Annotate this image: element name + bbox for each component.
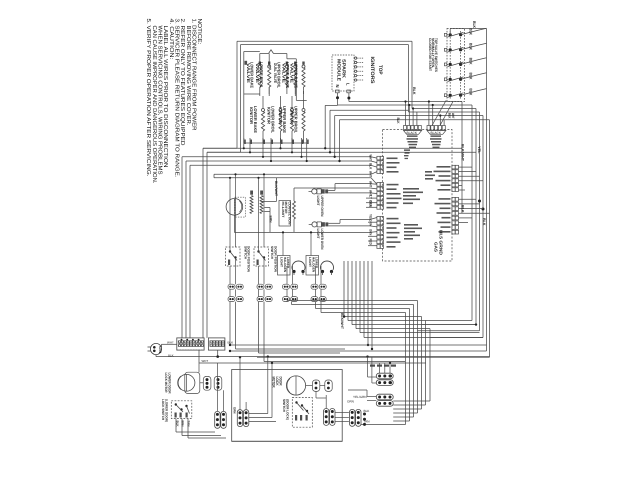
wire grid1 up [216,363,218,411]
svg-text:BLK: BLK [468,43,472,50]
halogen light box [306,256,319,276]
valve switch S2 [444,48,446,51]
wire bus line y178 [214,177,371,179]
svg-text:DUAL VALVE: DUAL VALVE [273,63,278,83]
control interior pin labels right of R2 [439,198,451,200]
wire harness corner k2 [330,109,409,111]
svg-text:WHT: WHT [368,155,372,161]
svg-text:ORN: ORN [368,201,372,208]
svg-text:VALVE: VALVE [246,63,251,84]
wire bus L1 [203,147,462,149]
connector grid A horizontal [376,373,393,379]
svg-text:N: N [335,85,340,88]
wire valve rail with arrow [243,52,245,144]
wire switch ladder top to BLK bus [449,29,451,35]
wire left harness corner 4 [186,160,371,162]
wire stubs control R2 to bus [459,198,477,200]
control connector P1 pin text [407,135,418,137]
halogen light lamp [321,261,334,270]
connector ovals center motor [312,380,319,391]
control interior center text blocks [403,188,419,190]
wires grid2 [239,357,241,409]
wire plug BLK bottom [155,355,157,357]
power cord plug P [150,343,161,354]
svg-text:SWITCH: SWITCH [243,246,247,260]
wire border row 2 to right [409,111,480,113]
outer border double line left [236,41,238,148]
svg-text:LIGHT: LIGHT [280,257,284,267]
svg-text:LIGHT: LIGHT [308,257,312,267]
wire border row 1 to right [412,108,476,110]
svg-text:MODULE: MODULE [336,59,341,81]
door lock enclosure box [232,370,343,442]
lower door lock switch box [171,401,192,419]
connector plug mid row2 8 [319,297,326,302]
svg-text:BLK: BLK [468,58,472,65]
wire right vertical v479 [479,112,481,331]
wire plug to terminal WHT [162,343,177,345]
wire valve top feeds [259,54,261,67]
bottom bus extra lines [230,344,487,346]
connector plug mid row1 3 [257,284,264,289]
convection fan coil 1 [250,196,253,214]
spark module U1 [332,55,354,91]
svg-text:BRN: BRN [269,216,273,224]
svg-text:SWITCH: SWITCH [282,399,286,413]
connector grid C [350,409,355,426]
svg-text:VALVE: VALVE [281,63,286,84]
spark module terminals [336,90,340,93]
junction dots bottom bus [229,350,231,352]
ignitor coil UPPER BAKE IGNITOR [291,109,294,112]
svg-text:BLK: BLK [468,88,472,95]
svg-text:TAN: TAN [364,419,370,423]
wire valve to ignitor links [244,93,260,95]
upper oven light bulb [312,189,317,194]
control connector L2 strip [377,183,380,187]
wire fan lower loop [233,215,235,232]
connector grid pair 1 [215,411,220,428]
svg-text:VALVE: VALVE [255,63,260,84]
wire bus line y174 [214,173,371,175]
wire ignitor feeders to bus [243,138,245,148]
wire staircase horizontals [287,300,418,302]
wire spark N lead [337,93,339,106]
connector grid B horizontal [376,394,393,400]
valve coil LOWER BROIL VALVE [268,65,271,68]
convection fan coil 2 [260,196,263,214]
control connector L1 strip [377,156,380,160]
wire harness corner k1 [325,104,337,106]
wire lower light leads [328,222,340,224]
junction dots right bus [478,200,481,203]
svg-text:BLK/WHT: BLK/WHT [274,181,278,197]
svg-text:LIGHT: LIGHT [316,196,320,207]
svg-text:SWITCH: SWITCH [270,246,274,260]
svg-text:GRN: GRN [233,407,237,414]
wire switch ladder bottom leads [432,101,446,126]
connector grid pair 3 [324,409,329,426]
halogen light box [278,256,291,276]
svg-text:BLK: BLK [368,163,372,170]
svg-text:5. VERIFY PROPER OPERATION AFT: 5. VERIFY PROPER OPERATION AFTER SERVICI… [145,19,151,177]
top ignitor spark gaps [354,57,356,59]
svg-text:IGNITOR: IGNITOR [249,107,254,124]
connector plug mid row1 7 [311,284,318,289]
outer border double line right [411,41,413,108]
control connector P1 strip [404,126,407,131]
ignitor coil LOWER BAKE IGNITOR [262,109,265,112]
svg-text:TOP: TOP [377,65,383,75]
valve switch S5 [444,94,446,97]
svg-text:WHT: WHT [202,359,209,363]
svg-text:BLK: BLK [482,218,486,226]
terminal block strip 2 [208,338,225,350]
svg-text:IGNITOR: IGNITOR [267,107,272,124]
connector plug mid row1 8 [319,284,326,289]
connector ovals lock motor [203,376,211,390]
wire box bottom [232,440,343,442]
wire bus L2 [207,151,476,153]
top valve switches dashed box [447,29,465,102]
wire spark N row to right [338,104,473,106]
wires down into connector P1 [405,102,407,126]
svg-text:YEL: YEL [477,146,481,154]
lower oven light bulb [312,222,317,227]
wire staircase drops [229,302,231,345]
wires lock switch to grid [175,419,177,433]
valve switch S4 [444,78,446,81]
door position switch UPPER DOOR [226,247,241,266]
wires grid3 [325,395,327,409]
svg-text:BLK: BLK [412,87,416,95]
wire left harness corner 3 [182,156,371,158]
svg-text:BLK: BLK [468,73,472,80]
connector plug mid row1 1 [228,284,235,289]
wire bundle A from control bottom [343,261,345,317]
wire left harness corner 5 [190,164,371,166]
svg-text:CLOSED FOR START: CLOSED FOR START [428,38,432,72]
valve switch S3 [444,63,446,66]
svg-text:GRN: GRN [158,346,162,354]
connector plug mid row1 4 [265,284,272,289]
svg-text:HI-LIMIT: HI-LIMIT [281,202,285,218]
svg-text:GRN: GRN [347,400,354,404]
svg-text:YEL/GRN: YEL/GRN [353,395,367,399]
outer border double line top [237,40,412,42]
connector plug mid row2 2 [236,297,243,302]
electronic oven control A1 dashed box [383,130,452,262]
svg-text:GRA: GRA [368,220,372,227]
valve coil LOWER BAKE VALVE [258,65,261,68]
control connector P2 strip [427,126,430,131]
ignitor coil LOWER BROIL IGNITOR [279,109,282,112]
control connector P2 pin text [431,135,442,137]
control connector L3 strip [377,217,380,221]
convection motor hi-limit thermostat [279,201,291,227]
svg-text:IGNITORS: IGNITORS [369,57,375,85]
lower door lock motor M2 [178,374,195,391]
svg-text:WHT: WHT [368,181,372,187]
svg-text:VALVE: VALVE [290,63,295,84]
connector plug mid row1 2 [236,284,243,289]
control connector R1 strip [452,165,455,169]
svg-text:MOTOR: MOTOR [272,377,276,388]
svg-text:GAS: GAS [434,242,439,252]
wire WHT lower [198,350,200,363]
connector plug mid row2 1 [228,297,235,302]
wire fan to hi-limit [262,200,277,202]
connector plug mid row2 4 [265,297,272,302]
svg-text:BLK: BLK [472,21,476,28]
svg-text:IGNITOR: IGNITOR [278,107,283,124]
convection fan motor M1 [226,199,243,216]
svg-text:BLK: BLK [364,409,371,413]
wires down into connector P2 [428,102,430,126]
svg-text:WHT: WHT [451,113,455,119]
wire left harness corner 1 [203,147,237,149]
connector grid pair 2 [237,410,242,427]
wire right vertical v472 [471,105,473,321]
labels above grid A [370,365,375,367]
wire spark L lead [348,93,350,102]
connector plug mid row2 5 [283,297,290,302]
svg-text:BLACK: BLACK [407,131,418,135]
connector plug mid row1 6 [291,284,298,289]
control connector R2 strip [452,197,455,201]
wire harness corner k4 [340,119,490,121]
wires grid B left [367,396,376,398]
wire left harness corner 2 [207,151,241,153]
wire terminal2 drop [217,350,219,357]
valve switch S1 [444,33,446,36]
wire BLK bus from top switches [486,29,488,352]
svg-text:LIGHT: LIGHT [316,229,320,240]
svg-text:BLK: BLK [461,205,465,213]
valve coil UPPER BAKE VALVE [294,65,297,68]
door lock switch center dashed [292,398,312,428]
wires halogen risers [282,232,284,255]
wires into control left connectors [371,157,377,158]
valve coil UPPER BROIL DUAL VALVE [285,65,288,68]
wire right vertical v476 [475,109,477,325]
connector plug mid row2 3 [257,297,264,302]
svg-text:LOCK MOTOR: LOCK MOTOR [164,373,168,394]
wires door switches to connectors [229,266,231,284]
wire harness corner k3 [335,115,483,117]
connector plug mid row2 6 [291,297,298,302]
svg-text:L: L [346,83,351,86]
ignitor coil UPPER BROIL IGNITOR [302,109,305,112]
wires grid A up [379,363,381,373]
connector plug mid row2 7 [311,297,318,302]
svg-text:RED: RED [368,239,372,246]
valve coil UPPER BAKE VALVE [302,65,305,68]
wire motor to connector [200,382,204,384]
wires door switches up to bus [229,178,231,247]
svg-text:LOCK SWITCH: LOCK SWITCH [161,399,165,421]
control interior pin labels left [387,158,398,160]
door lock motor M3 [286,376,305,395]
wire spark L row to right [349,101,462,103]
wire right vertical v489 [489,120,491,358]
svg-text:BLK: BLK [396,118,400,124]
wire upper light leads [328,189,335,191]
svg-text:BLACK: BLACK [431,131,442,135]
halogen light lamp [292,261,305,270]
svg-text:BLK/WHT: BLK/WHT [461,144,465,162]
wire right vertical v483 [482,116,484,338]
control interior pin labels right of R1 [437,166,451,168]
door position switch LOWER DOOR [254,247,269,266]
svg-text:BLK: BLK [468,28,472,35]
svg-text:IGNITOR: IGNITOR [290,107,295,124]
wire stubs control R1 to bus [459,166,473,168]
terminal block strip 1 [177,338,204,350]
connector plug mid row1 5 [283,284,290,289]
